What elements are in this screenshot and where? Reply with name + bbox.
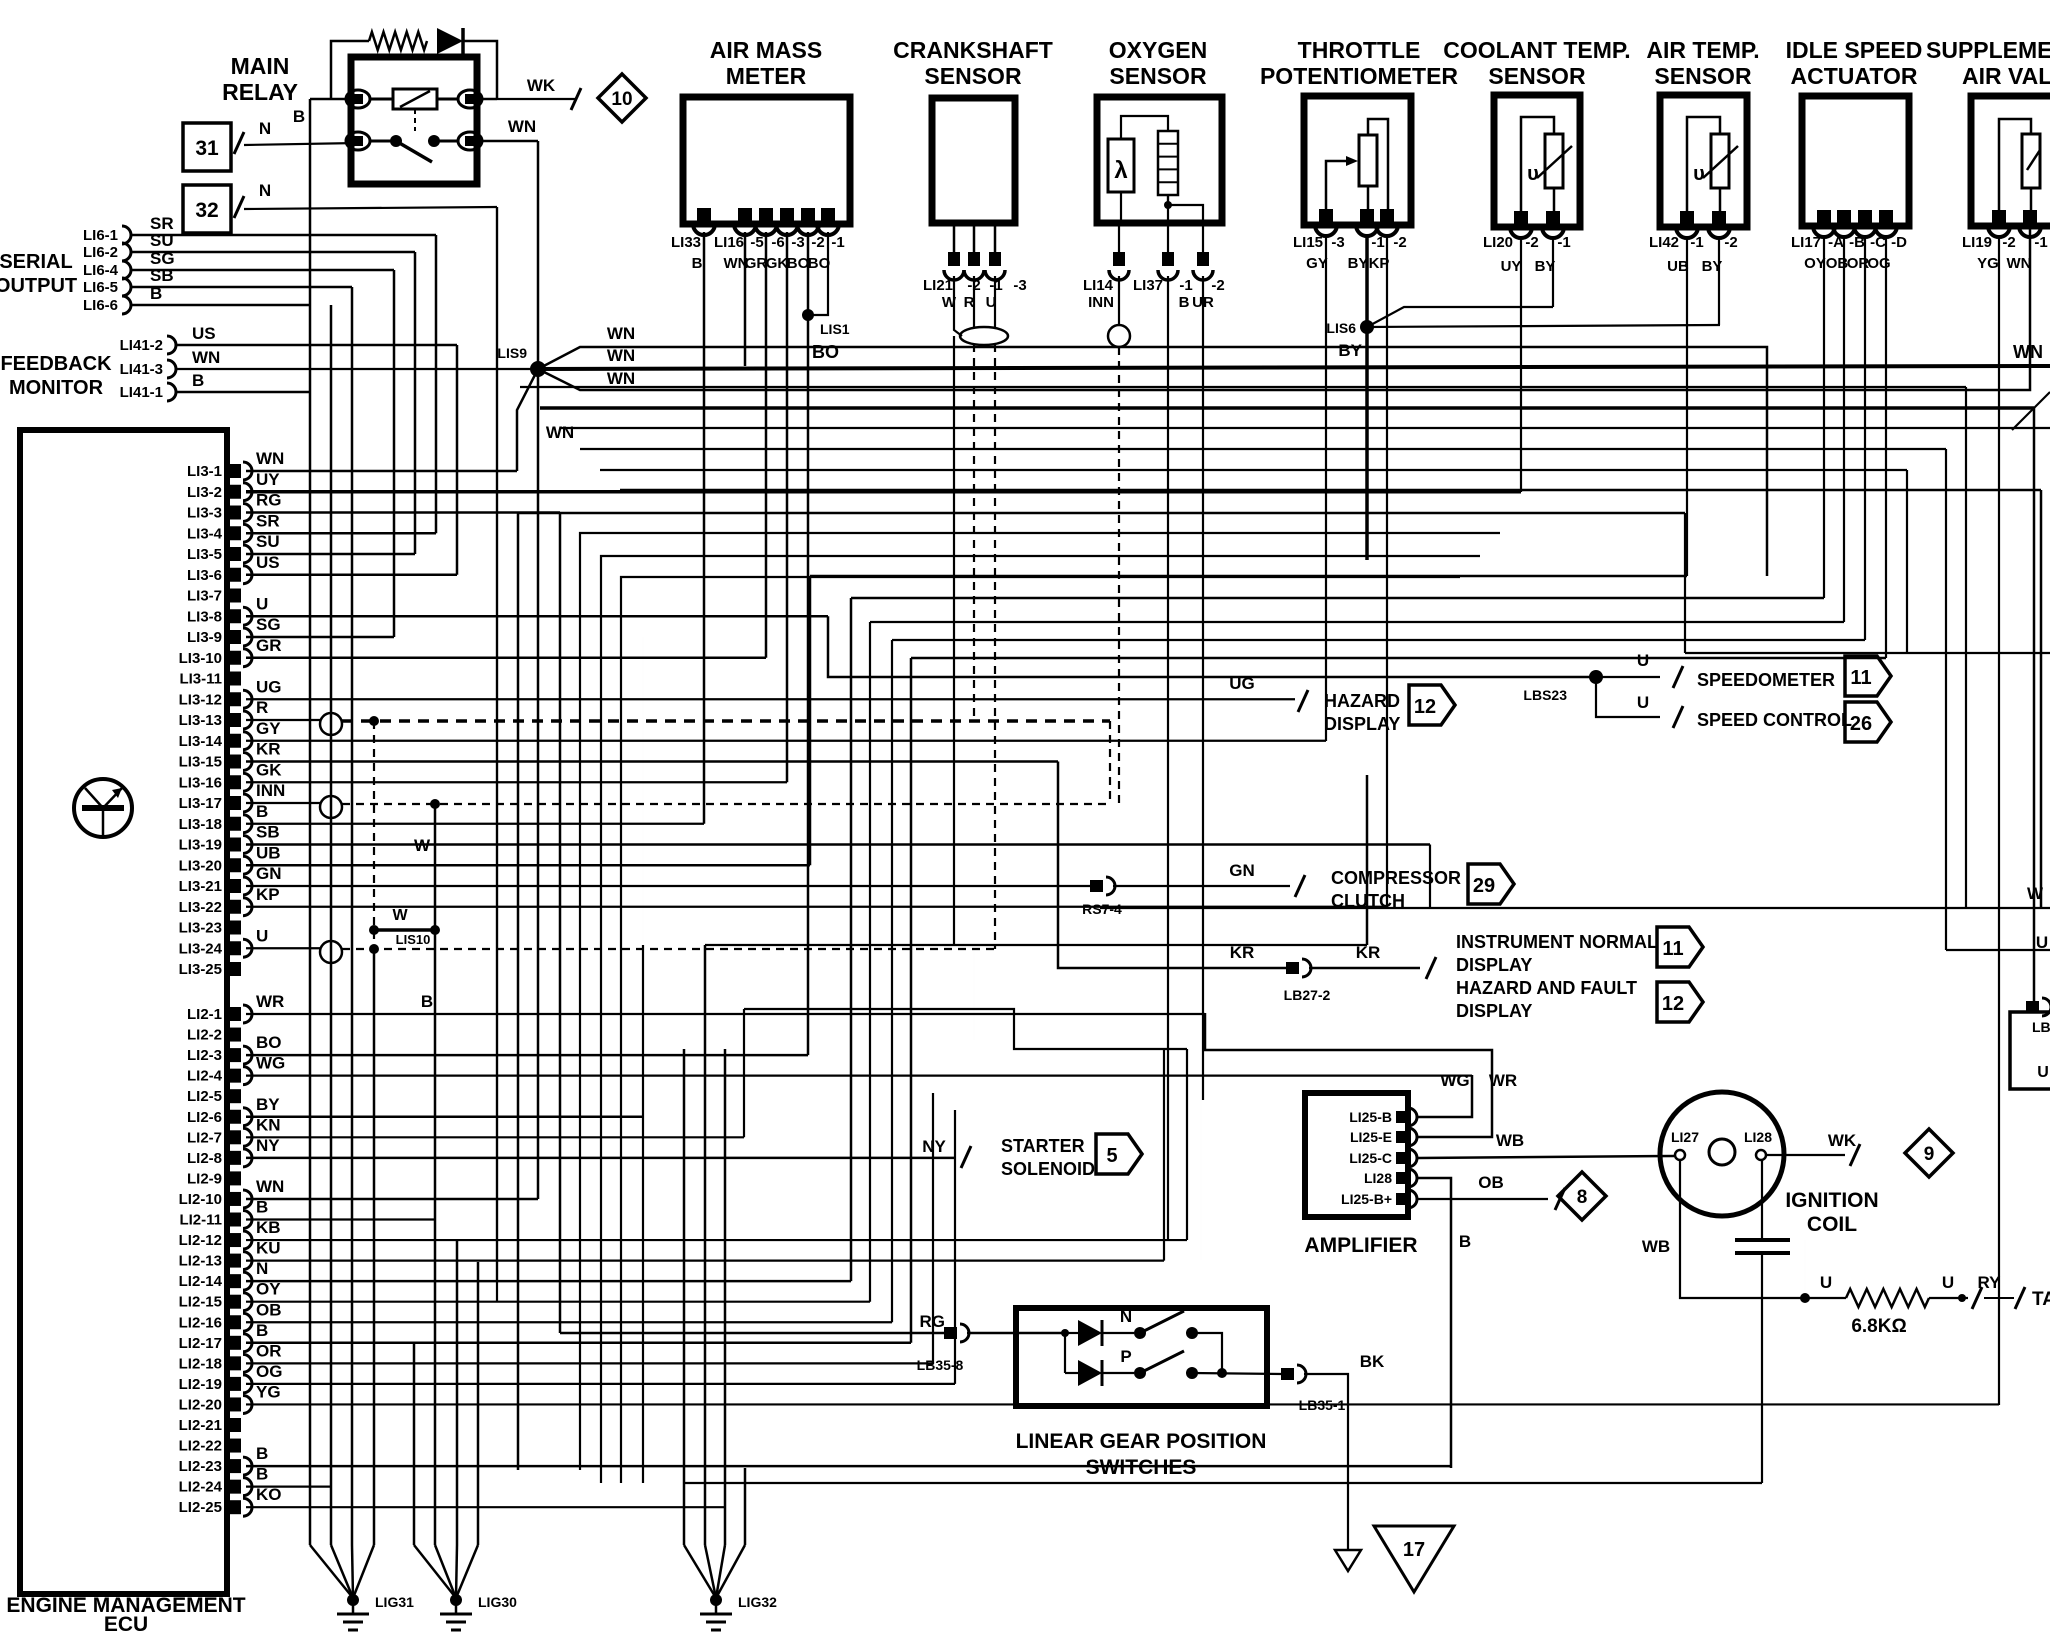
- svg-text:LI41-3: LI41-3: [120, 361, 163, 378]
- svg-text:LI3-17: LI3-17: [179, 795, 222, 812]
- ECU pin LI2-14: [229, 1274, 241, 1288]
- svg-text:17: 17: [1403, 1539, 1425, 1561]
- air temp internal wire: [1687, 117, 1720, 213]
- ECU pin LI2-11: [229, 1213, 241, 1227]
- svg-text:B: B: [293, 107, 305, 126]
- wire OB vertical: [891, 640, 893, 1322]
- wire W crankshaft: [954, 276, 962, 336]
- svg-text:LI3-15: LI3-15: [179, 754, 222, 771]
- svg-text:LI2-17: LI2-17: [179, 1335, 222, 1352]
- relay switch contacts: [390, 135, 402, 147]
- contact P right: [1186, 1367, 1198, 1379]
- switch blade P: [1144, 1351, 1184, 1371]
- wire N vertical to LI2-14: [496, 207, 498, 1281]
- svg-text:B: B: [421, 992, 433, 1011]
- svg-text:LI2-24: LI2-24: [179, 1479, 223, 1496]
- wire SB vertical: [351, 287, 354, 845]
- svg-text:LI2-16: LI2-16: [179, 1314, 222, 1331]
- svg-text:HAZARD AND FAULT: HAZARD AND FAULT: [1456, 978, 1637, 998]
- svg-text:YG: YG: [1977, 255, 1999, 272]
- svg-text:U: U: [1942, 1273, 1954, 1292]
- wire long y428: [560, 427, 2050, 429]
- transistor symbol inside ECU: [74, 779, 132, 837]
- svg-text:LI2-5: LI2-5: [187, 1088, 222, 1105]
- pentagon 11 instrument display: [1657, 927, 1703, 967]
- wire R dashed row: [342, 719, 1110, 723]
- svg-text:GY: GY: [256, 719, 281, 738]
- throttle pot pin: [1319, 209, 1333, 223]
- wire WN middle from LIS9: [538, 366, 2050, 369]
- svg-text:US: US: [256, 553, 280, 572]
- ring on R row: [320, 713, 342, 735]
- svg-text:LI2-14: LI2-14: [179, 1273, 223, 1290]
- main relay box: [351, 57, 477, 184]
- ECU pin LI2-3: [229, 1048, 241, 1062]
- crankshaft sensor box: [932, 98, 1015, 223]
- air mass meter pin: [759, 208, 773, 222]
- connector LB35-1: [1281, 1368, 1294, 1380]
- wire KP down: [1386, 236, 1388, 907]
- linear gear position switches box: [1016, 1308, 1267, 1406]
- wire U dashed: [994, 344, 996, 949]
- svg-text:WN: WN: [256, 1177, 284, 1196]
- svg-text:COMPRESSOR: COMPRESSOR: [1331, 868, 1461, 888]
- wire KO vertical to LIG32: [683, 1049, 686, 1545]
- svg-text:TA: TA: [2032, 1289, 2050, 1310]
- svg-text:LIS9: LIS9: [497, 345, 527, 361]
- connector LB27-2: [1286, 962, 1299, 974]
- svg-text:LIG31: LIG31: [375, 1594, 414, 1610]
- wire LI3-1 WN: [246, 470, 517, 473]
- svg-text:LI2-21: LI2-21: [179, 1417, 222, 1434]
- ECU pin LI3-12: [229, 692, 241, 706]
- svg-text:-1: -1: [1371, 234, 1384, 251]
- svg-text:GR: GR: [256, 636, 282, 655]
- svg-text:-2: -2: [1211, 277, 1224, 294]
- relay terminal: [458, 90, 482, 108]
- svg-text:LI2-18: LI2-18: [179, 1355, 222, 1372]
- idle actuator pin: [1879, 210, 1893, 224]
- capacitor: [1761, 1160, 1763, 1238]
- wire long y408 thick: [540, 406, 2034, 410]
- wire LI2-18 OR: [246, 1362, 933, 1364]
- svg-text:LI25-B+: LI25-B+: [1341, 1191, 1392, 1207]
- terminal box 31: [183, 123, 231, 171]
- wire B LI2-11 to LIG30: [434, 1220, 437, 1545]
- svg-text:KO: KO: [256, 1485, 282, 1504]
- wire KR down to LB27-2: [1058, 762, 1287, 969]
- ECU pin LI2-5: [229, 1089, 241, 1103]
- air mass meter pin: [738, 208, 752, 222]
- svg-text:-2: -2: [2002, 234, 2015, 251]
- wire INN: [1118, 276, 1120, 325]
- oxygen sensor lead: [1202, 223, 1204, 252]
- air mass meter pin: [801, 208, 815, 222]
- wire SB serial: [131, 286, 352, 289]
- wire LI2-12 KB: [246, 1239, 1187, 1241]
- svg-text:METER: METER: [726, 63, 807, 89]
- svg-text:31: 31: [195, 137, 219, 160]
- svg-text:POTENTIOMETER: POTENTIOMETER: [1260, 63, 1458, 89]
- wire to LIG31: [373, 949, 376, 1545]
- wire BY to air temp: [1367, 325, 1720, 327]
- svg-text:SENSOR: SENSOR: [1488, 63, 1586, 89]
- svg-text:LI3-23: LI3-23: [179, 920, 222, 937]
- wire LI2-6 BY: [246, 1116, 643, 1119]
- connector RS7-4: [1090, 880, 1103, 892]
- svg-text:LI2-25: LI2-25: [179, 1499, 222, 1516]
- pentagon 26 speed control: [1845, 702, 1891, 742]
- svg-text:BY: BY: [1338, 341, 1362, 360]
- diamond 10: [598, 74, 646, 122]
- svg-text:LI3-3: LI3-3: [187, 505, 222, 522]
- svg-text:LB27-2: LB27-2: [1284, 987, 1331, 1003]
- svg-text:LI3-14: LI3-14: [179, 733, 223, 750]
- wire WK: [497, 98, 576, 100]
- wire staircase D: [621, 577, 1460, 1483]
- svg-text:U: U: [1637, 651, 1649, 670]
- ECU pin LI2-1: [229, 1007, 241, 1021]
- wire WN from relay: [482, 140, 538, 143]
- wire B from LI28: [1418, 1178, 1451, 1468]
- svg-text:B: B: [256, 1465, 268, 1484]
- wire WB to ignition coil: [1418, 1156, 1674, 1158]
- relay terminal: [458, 132, 482, 150]
- wire B run: [911, 657, 1886, 660]
- idle actuator pin: [1858, 210, 1872, 224]
- svg-text:8: 8: [1577, 1187, 1588, 1208]
- wire v1946: [1945, 449, 1947, 950]
- svg-text:LI3-19: LI3-19: [179, 837, 222, 854]
- svg-text:LI15: LI15: [1293, 234, 1323, 251]
- svg-text:LI42: LI42: [1649, 234, 1679, 251]
- wire B air mass down: [703, 232, 706, 824]
- svg-text:LIS1: LIS1: [820, 321, 850, 337]
- wire UB down: [1686, 238, 1688, 576]
- wire LI2-7 KN: [246, 1136, 744, 1138]
- ECU pin LI2-24: [229, 1480, 241, 1494]
- ECU pin LI2-20: [229, 1397, 241, 1411]
- ECU pin LI3-4: [229, 526, 241, 540]
- ECU pin LI3-3: [229, 506, 241, 520]
- svg-text:LI3-8: LI3-8: [187, 608, 222, 625]
- wire KB vertical: [1186, 1049, 1188, 1240]
- throttle pot pin: [1380, 209, 1394, 223]
- air temp sensor pin: [1712, 211, 1726, 225]
- wire U stub: [246, 947, 320, 949]
- wire from capacitor down: [1761, 1253, 1763, 1483]
- svg-text:B: B: [692, 255, 703, 272]
- wire N from 31: [244, 143, 358, 145]
- svg-text:26: 26: [1850, 713, 1872, 735]
- svg-text:LI2-2: LI2-2: [187, 1027, 222, 1044]
- wire WR loop: [1205, 1013, 1492, 1137]
- wire relay coil left: [310, 98, 346, 101]
- INN shield ring: [1108, 325, 1130, 347]
- svg-text:LI2-6: LI2-6: [187, 1109, 222, 1126]
- wire diode common: [1064, 1333, 1066, 1373]
- wire OB down: [1843, 237, 1845, 622]
- svg-text:GN: GN: [256, 864, 282, 883]
- ECU pin LI2-13: [229, 1254, 241, 1268]
- svg-text:BO: BO: [256, 1033, 282, 1052]
- svg-text:LI20: LI20: [1483, 234, 1513, 251]
- wire RG run to LB35-8: [560, 1332, 944, 1335]
- diode in relay loop: [437, 28, 463, 54]
- svg-text:LI17: LI17: [1791, 234, 1821, 251]
- wire W-BY horizontal: [705, 944, 1367, 946]
- svg-text:LI2-13: LI2-13: [179, 1253, 222, 1270]
- ECU pin LI2-15: [229, 1295, 241, 1309]
- svg-text:N: N: [259, 181, 271, 200]
- svg-text:WN: WN: [607, 369, 635, 388]
- wire RG vertical: [559, 513, 562, 1334]
- svg-text:B: B: [256, 802, 268, 821]
- svg-text:LI3-6: LI3-6: [187, 567, 222, 584]
- oxygen internal wire: [1121, 116, 1168, 139]
- crankshaft shield loop: [960, 327, 1008, 345]
- svg-text:HAZARD: HAZARD: [1324, 691, 1400, 711]
- coolant internal wire: [1521, 117, 1554, 213]
- wire UB run: [810, 575, 1687, 578]
- wire v2034 to LB28: [2033, 408, 2036, 1007]
- svg-text:LI33: LI33: [671, 234, 701, 251]
- svg-text:LI2-1: LI2-1: [187, 1006, 222, 1023]
- svg-text:LI3-13: LI3-13: [179, 712, 222, 729]
- ECU pin LI2-2: [229, 1028, 241, 1042]
- wire LI3-12 UG: [246, 698, 1295, 700]
- svg-text:10: 10: [611, 89, 632, 110]
- wire GR down: [765, 232, 768, 658]
- wire U to speedometer: [1596, 676, 1660, 678]
- wire BY coolant down: [1552, 238, 1554, 307]
- ECU pin LI3-2: [229, 485, 241, 499]
- idle speed actuator box: [1802, 96, 1909, 226]
- svg-text:LI28: LI28: [1744, 1129, 1772, 1145]
- wire B spur to LIG32: [744, 1468, 747, 1545]
- wire LI2-25 KO: [246, 1506, 725, 1508]
- wire KR to display: [1309, 967, 1420, 970]
- wire GK down: [786, 232, 789, 782]
- wire INN dashed row: [342, 803, 1110, 805]
- svg-text:YG: YG: [256, 1382, 281, 1401]
- svg-text:LI3-5: LI3-5: [187, 546, 222, 563]
- svg-text:6.8KΩ: 6.8KΩ: [1851, 1316, 1906, 1337]
- svg-text:12: 12: [1414, 696, 1436, 718]
- svg-text:P: P: [1120, 1347, 1131, 1366]
- svg-text:LI3-16: LI3-16: [179, 774, 222, 791]
- wire WN feedback: [176, 368, 538, 370]
- svg-text:GY: GY: [1306, 255, 1328, 272]
- ECU pin LI3-18: [229, 817, 241, 831]
- pentagon 5 starter solenoid: [1096, 1134, 1142, 1174]
- wire OB to diamond 8: [1418, 1198, 1548, 1200]
- svg-text:UY: UY: [256, 470, 280, 489]
- svg-text:SENSOR: SENSOR: [924, 63, 1022, 89]
- svg-text:-2: -2: [811, 234, 824, 251]
- svg-text:-6: -6: [771, 234, 784, 251]
- svg-text:STARTER: STARTER: [1001, 1136, 1085, 1156]
- coolant sensor pin: [1514, 211, 1528, 225]
- svg-text:LI3-7: LI3-7: [187, 588, 222, 605]
- ECU pin LI3-11: [229, 672, 241, 686]
- wire BK down: [1304, 1374, 1348, 1550]
- svg-text:INN: INN: [1088, 294, 1114, 311]
- ECU pin LI3-5: [229, 547, 241, 561]
- svg-text:LI3-4: LI3-4: [187, 525, 223, 542]
- svg-text:N: N: [259, 119, 271, 138]
- wire LI2-4 WG: [246, 1075, 1472, 1077]
- ECU pin LI3-1: [229, 464, 241, 478]
- svg-text:-1: -1: [1179, 277, 1192, 294]
- svg-text:LI2-19: LI2-19: [179, 1376, 222, 1393]
- wire LI2-14 N: [246, 1280, 851, 1283]
- ECU pin LI2-12: [229, 1233, 241, 1247]
- svg-text:OR: OR: [256, 1341, 282, 1360]
- ECU pin LI3-15: [229, 755, 241, 769]
- svg-text:29: 29: [1473, 875, 1495, 897]
- svg-text:AIR TEMP.: AIR TEMP.: [1646, 37, 1759, 63]
- svg-text:LI6-6: LI6-6: [83, 297, 118, 314]
- ECU pin LI2-25: [229, 1500, 241, 1514]
- svg-text:LI2-4: LI2-4: [187, 1068, 223, 1085]
- diamond 9: [1905, 1129, 1953, 1177]
- svg-text:WN: WN: [192, 348, 220, 367]
- svg-text:LI27: LI27: [1671, 1129, 1699, 1145]
- svg-text:ECU: ECU: [104, 1613, 148, 1632]
- svg-text:SENSOR: SENSOR: [1109, 63, 1207, 89]
- svg-text:LI3-20: LI3-20: [179, 857, 222, 874]
- svg-text:WK: WK: [527, 76, 556, 95]
- svg-text:COOLANT TEMP.: COOLANT TEMP.: [1443, 37, 1630, 63]
- ECU pin LI2-23: [229, 1459, 241, 1473]
- diode P: [1078, 1360, 1102, 1386]
- svg-text:DISPLAY: DISPLAY: [1456, 955, 1532, 975]
- svg-text:-2: -2: [1393, 234, 1406, 251]
- ECU pin LI3-23: [229, 921, 241, 935]
- ECU pin LI3-13: [229, 713, 241, 727]
- coolant thermistor: [1545, 134, 1563, 188]
- svg-text:UY: UY: [1501, 258, 1522, 275]
- svg-text:υ: υ: [1693, 163, 1705, 185]
- wire v2041: [2040, 490, 2043, 908]
- svg-text:LI3-22: LI3-22: [179, 899, 222, 916]
- wire W vertical to LIG32: [704, 945, 707, 1545]
- svg-text:LI14: LI14: [1083, 277, 1114, 294]
- wire long y908: [1100, 907, 2050, 909]
- wire long y387: [520, 386, 1966, 388]
- node LIS1: [802, 309, 814, 321]
- ground LIG31: [310, 1545, 353, 1598]
- ECU pin LI3-22: [229, 900, 241, 914]
- svg-text:LI25-B: LI25-B: [1349, 1109, 1392, 1125]
- svg-text:B: B: [256, 1444, 268, 1463]
- ground LIG32: [684, 1545, 716, 1598]
- svg-text:WG: WG: [1440, 1071, 1469, 1090]
- ECU pin LI2-22: [229, 1439, 241, 1453]
- svg-text:LI3-11: LI3-11: [179, 671, 222, 688]
- svg-text:5: 5: [1106, 1145, 1117, 1167]
- ECU pin LI2-16: [229, 1315, 241, 1329]
- svg-text:R: R: [256, 698, 268, 717]
- svg-text:INSTRUMENT NORMAL: INSTRUMENT NORMAL: [1456, 932, 1658, 952]
- ECU pin LI3-21: [229, 879, 241, 893]
- svg-text:OY: OY: [256, 1280, 281, 1299]
- svg-text:CRANKSHAFT: CRANKSHAFT: [893, 37, 1053, 63]
- wire B long horizontal to LIG32: [684, 1482, 1762, 1484]
- wire LI3-9 SG: [246, 636, 394, 639]
- ECU pin LI3-17: [229, 796, 241, 810]
- wire LI3-6 US: [246, 574, 457, 577]
- svg-text:LI6-4: LI6-4: [83, 262, 119, 279]
- relay coil: [393, 89, 437, 109]
- diamond 8: [1558, 1172, 1606, 1220]
- wire stepped run: [744, 1009, 1187, 1049]
- svg-text:LI2-23: LI2-23: [179, 1458, 222, 1475]
- svg-text:OUTPUT: OUTPUT: [0, 275, 77, 297]
- svg-text:NY: NY: [256, 1136, 280, 1155]
- ground arrowhead BK: [1335, 1550, 1361, 1571]
- ECU pin LI3-25: [229, 962, 241, 976]
- ECU pin LI2-18: [229, 1356, 241, 1370]
- crankshaft sensor lead: [953, 224, 956, 252]
- wire N vertical to LI2-14: [496, 207, 498, 1302]
- wire WN air mass down: [744, 232, 747, 366]
- wire INN stub: [246, 802, 320, 804]
- svg-text:LB28-: LB28-: [2032, 1019, 2050, 1035]
- svg-text:LI2-22: LI2-22: [179, 1438, 222, 1455]
- wire LI3-8 U: [246, 615, 828, 618]
- svg-text:LI3-12: LI3-12: [179, 691, 222, 708]
- svg-text:SR: SR: [256, 511, 280, 530]
- svg-text:SENSOR: SENSOR: [1654, 63, 1752, 89]
- wire R crankshaft: [973, 276, 975, 328]
- wire SB vertical right: [1429, 845, 1431, 909]
- svg-text:LI6-5: LI6-5: [83, 279, 118, 296]
- wire OR down: [1864, 237, 1866, 640]
- wire B feedback: [176, 391, 310, 394]
- svg-text:WN: WN: [2007, 255, 2032, 272]
- wire LI3-18 B: [246, 823, 704, 825]
- wire U dashed row: [342, 948, 995, 950]
- svg-text:WN: WN: [508, 117, 536, 136]
- ignition coil terminal LI28: [1756, 1150, 1766, 1160]
- svg-text:12: 12: [1662, 993, 1684, 1015]
- wire LI2-17 B: [246, 1342, 911, 1345]
- wire LI2-3 BO: [246, 1054, 808, 1057]
- resistor in relay loop: [369, 32, 427, 50]
- svg-text:KU: KU: [256, 1239, 281, 1258]
- wire OG vertical: [954, 1110, 956, 1384]
- throttle potentiometer box: [1304, 96, 1411, 225]
- wire LI3-5 SU: [246, 553, 415, 556]
- wire WN lower from LIS9 to air valve: [538, 228, 2030, 390]
- throttle wiper wire: [1326, 161, 1352, 213]
- wire OR vertical: [932, 1093, 934, 1363]
- svg-text:SPEEDOMETER: SPEEDOMETER: [1697, 670, 1835, 690]
- svg-text:-C: -C: [1870, 234, 1886, 251]
- svg-text:FEEDBACK: FEEDBACK: [0, 353, 112, 375]
- wire LI2-13 KU: [246, 1259, 1164, 1261]
- wire to LIG30: [477, 1262, 480, 1545]
- ECU pin LI2-7: [229, 1130, 241, 1144]
- wire LI3-16 GK: [246, 781, 787, 783]
- svg-text:λ: λ: [1114, 157, 1127, 184]
- svg-text:-1: -1: [1557, 234, 1570, 251]
- svg-text:GN: GN: [1229, 861, 1255, 880]
- wire N-OY run: [851, 597, 1824, 600]
- heater ladder: [1158, 131, 1178, 195]
